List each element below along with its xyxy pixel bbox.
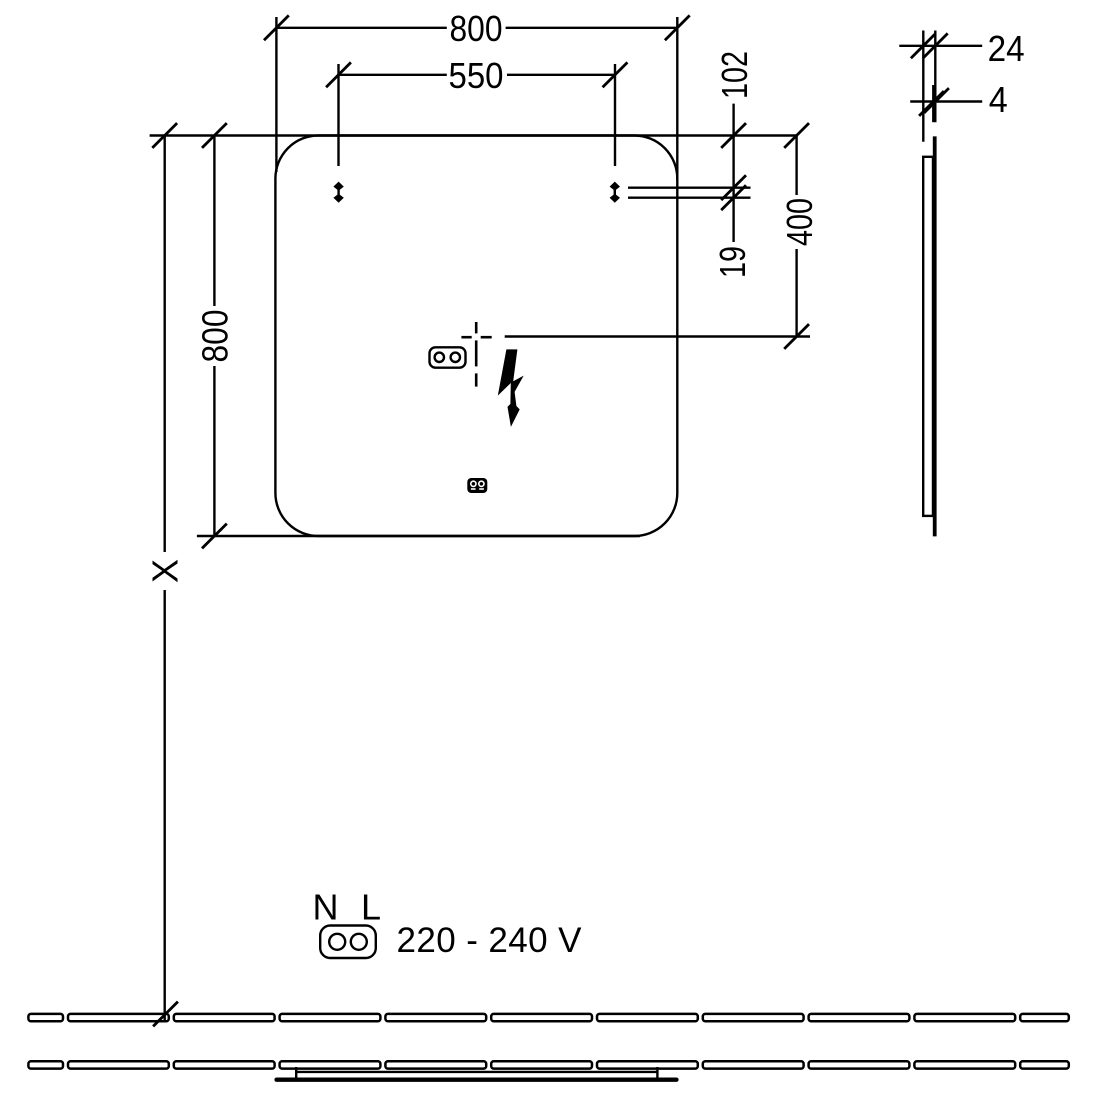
top view: backing box [296,1067,657,1079]
dimension 102: tick top [721,123,746,148]
tile row 2 [28,1061,1068,1068]
dimension 400: tick top [784,123,809,148]
tile row 1 [28,1014,1068,1021]
dimension 550: tick left [326,62,351,87]
dimension 800 horizontal: tick left [264,15,289,40]
dimension 400 vertical dim line [795,136,797,196]
top view: mirror glass thick line [277,1077,677,1081]
svg-text:400: 400 [779,198,820,246]
dimension 24: tick left [911,33,936,58]
dimension 800 vertical: tick top [202,123,227,148]
side view: mirror glass [933,136,937,536]
svg-text:24: 24 [988,28,1025,69]
centre line to 400 dim [505,335,810,337]
dimension 550: extension line left [337,64,339,166]
dimension X: tick bottom [153,1002,178,1027]
mounting hole level line upper [628,186,751,188]
mounting hole left icon [333,182,343,203]
dimension X: tick top [152,123,177,148]
lightning bolt [498,349,524,427]
svg-text:X: X [145,559,186,583]
bottom edge extension line [197,535,640,537]
dimension 550: dim line [339,74,447,76]
dimension 19: tick lower [721,185,746,210]
dimension X vertical: dim line [163,136,165,553]
svg-text:800: 800 [194,310,235,363]
dimension 4: tick left [919,91,944,116]
dimension 550: tick right [603,62,628,87]
svg-text:102: 102 [714,51,755,99]
svg-text:800: 800 [450,8,503,49]
svg-text:L: L [361,887,381,928]
dimension 800 horizontal: extension line left [275,17,277,172]
dimension 800 horizontal: extension line right [676,17,678,180]
mounting hole level line lower [628,196,751,198]
dimension 800 vertical left: dim line [213,136,215,307]
dimension 800 horizontal: tick right [665,15,690,40]
electrical socket icon bottom [320,926,376,959]
dashed centre cross [461,322,491,387]
dimension 800 horizontal: dim line [276,27,446,29]
svg-text:550: 550 [449,55,504,96]
svg-text:N: N [313,887,339,928]
dimension 4: dim line [910,100,982,102]
dimension 24: tick right [923,33,948,58]
side view: short extension for 4 [932,85,934,122]
svg-text:220 - 240 V: 220 - 240 V [397,921,583,960]
small switch icon bottom of mirror [467,478,487,493]
side view: extension line left [922,31,924,142]
side view: extension line right [934,31,936,123]
dimension 400: tick bottom [784,324,809,349]
dimension 102/19 vertical dim line [732,104,734,242]
mirror outline front view [275,136,677,537]
dimension 550: extension line right [614,64,616,166]
side view: backing box [923,157,933,516]
dimension 24: dim line [899,45,982,47]
svg-text:19: 19 [712,246,753,278]
svg-text:4: 4 [989,79,1008,120]
mounting hole right icon [610,182,620,203]
power socket icon centre [430,347,466,367]
dimension 800 vertical: tick bottom [202,524,227,549]
dimension 4: tick right [924,88,949,113]
top edge long extension line [150,134,797,136]
dimension 19: tick upper [721,175,746,200]
